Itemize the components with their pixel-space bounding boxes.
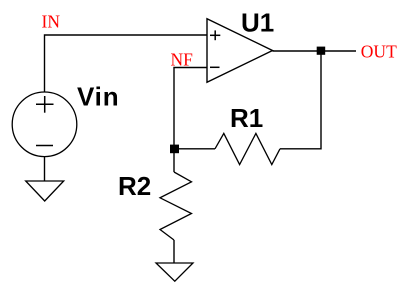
op-amp U1 [207,19,273,83]
svg-text:OUT: OUT [361,42,397,62]
wire [280,51,321,149]
wire [44,157,46,182]
wire [173,153,175,172]
ground [156,263,193,281]
node IN [42,12,61,32]
svg-text:R2: R2 [118,171,151,201]
junction [317,47,326,55]
resistor R2 [160,172,192,240]
wire [174,68,207,150]
resistor R1 [215,133,280,164]
svg-text:R1: R1 [230,103,263,133]
svg-text:NF: NF [171,50,194,70]
label Vin [77,82,119,112]
node NF [171,50,194,70]
wire [273,50,357,52]
wire [45,35,208,92]
node OUT [361,42,397,62]
label U1 [241,8,274,38]
svg-text:IN: IN [42,12,61,32]
ground [26,181,64,201]
voltage source Vin [12,92,77,157]
junction [170,145,179,154]
label R2 [118,171,151,201]
wire [173,240,175,263]
svg-text:Vin: Vin [77,82,119,112]
label R1 [230,103,263,133]
svg-text:U1: U1 [241,8,274,38]
wire [174,148,215,150]
